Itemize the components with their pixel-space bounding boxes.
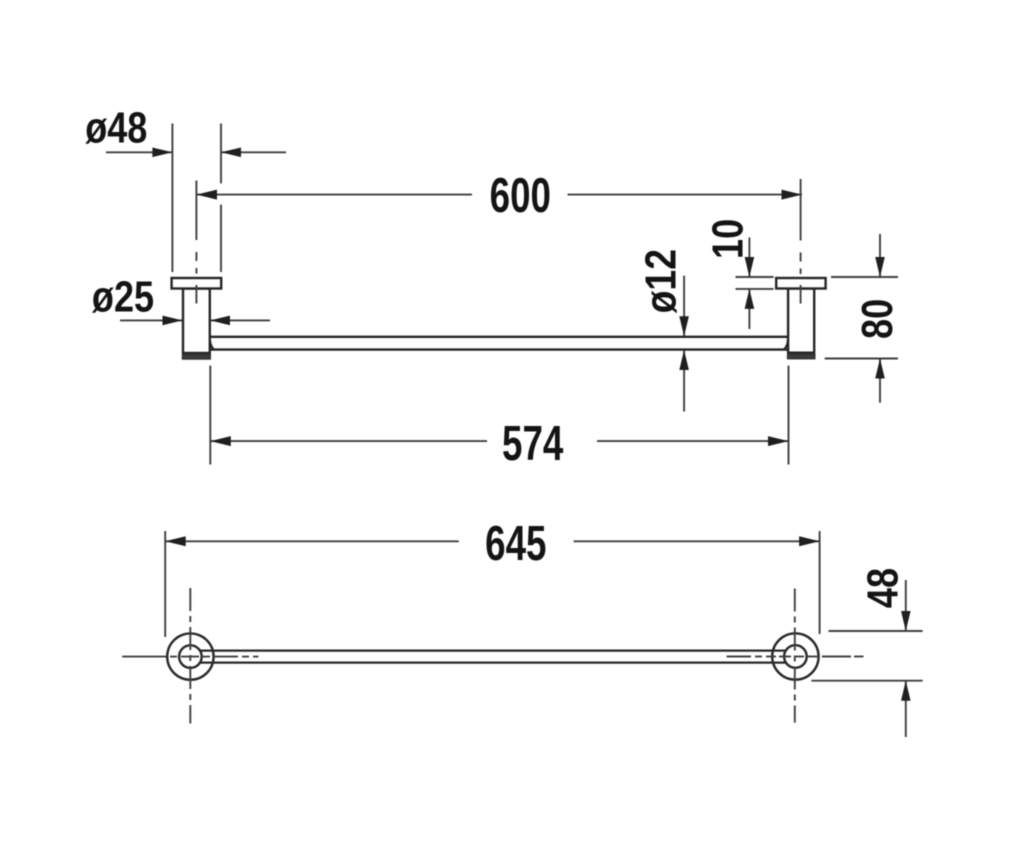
- dimension 48 lower arrow: [901, 681, 911, 737]
- centre line left post: [195, 181, 197, 274]
- svg-text:ø25: ø25: [92, 272, 154, 321]
- dimension ø12 lower arrow: [679, 350, 689, 412]
- dimension 645 extension line right: [819, 531, 821, 634]
- svg-text:48: 48: [858, 568, 907, 608]
- right post body: [788, 289, 814, 353]
- svg-text:645: 645: [485, 517, 546, 571]
- dimension 574 left arrowhead: [210, 436, 231, 446]
- left post body: [183, 289, 210, 354]
- centre line through left flange: [195, 285, 197, 304]
- dimension 80 upper arrow: [875, 234, 885, 277]
- dimension ø25 right arrow: [210, 316, 270, 326]
- svg-text:10: 10: [703, 219, 752, 259]
- right flange circle (plan): [772, 633, 818, 679]
- left flange circle (plan): [167, 633, 213, 679]
- dimension ø48 right arrow: [221, 148, 286, 158]
- dimension 574 extension line left: [209, 366, 211, 465]
- dimension ø25 left arrow: [120, 316, 183, 326]
- dimension 80 extension lines: [825, 277, 898, 359]
- left post end cap: [182, 353, 210, 359]
- centre line through right flange: [800, 285, 802, 304]
- centre line horizontal left circle: [122, 656, 258, 658]
- dimension 10 upper arrow: [745, 238, 755, 278]
- right post end cap: [787, 353, 815, 359]
- dimension 645 right arrowhead: [799, 536, 820, 546]
- right flange inner circle: [784, 645, 807, 668]
- dimension ø12 upper arrow: [679, 276, 689, 337]
- dimension 645 extension line left: [164, 531, 166, 637]
- centre line horizontal right circle: [727, 656, 864, 658]
- centre line vertical right circle: [794, 589, 796, 723]
- dimension ø48 extension line right (broken around 600 arrowhead): [220, 124, 222, 273]
- dimension 645 line: [165, 540, 819, 542]
- dimension 600 line: [197, 194, 803, 196]
- bar fillet left: [210, 339, 214, 349]
- svg-text:600: 600: [490, 169, 551, 223]
- bar fillet right: [784, 339, 788, 349]
- dimension 10 lower arrow: [745, 289, 755, 329]
- dimension 48 extension lines: [811, 631, 922, 681]
- dimension 574 extension line right: [788, 366, 790, 465]
- towel bar (horizontal rod): [210, 337, 788, 350]
- dimension ø48 extension line left: [171, 124, 173, 273]
- left wall flange: [172, 278, 222, 289]
- dimension 48 upper arrow: [901, 580, 911, 631]
- dimension 645 left arrowhead: [165, 536, 186, 546]
- svg-text:574: 574: [502, 417, 563, 471]
- dimension 574 right arrowhead: [768, 436, 789, 446]
- dimension 10 extension lines: [736, 277, 774, 289]
- dimension 600 left arrowhead: [197, 190, 218, 200]
- left flange inner circle: [179, 645, 202, 668]
- dimension ø48 left arrow: [106, 148, 172, 158]
- right wall flange: [776, 278, 825, 289]
- centre line right post: [800, 179, 802, 274]
- svg-text:80: 80: [852, 299, 901, 339]
- dimension 80 lower arrow: [875, 359, 885, 403]
- svg-text:ø48: ø48: [85, 103, 147, 152]
- svg-text:ø12: ø12: [636, 249, 686, 313]
- dimension 600 right arrowhead: [782, 190, 803, 200]
- bar in plan view: [201, 651, 786, 663]
- centre line vertical left circle: [189, 588, 191, 724]
- dimension 574 line: [210, 440, 788, 442]
